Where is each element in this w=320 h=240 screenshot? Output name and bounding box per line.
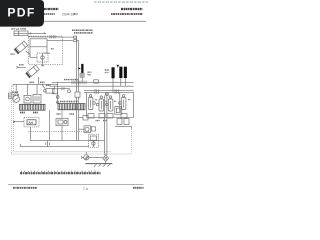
bus rail P <box>84 91 134 93</box>
connector under F3 <box>107 114 113 119</box>
wire R to dotted edge <box>115 127 131 129</box>
header horizontal rule <box>41 20 146 22</box>
battery bar B0 <box>81 64 83 73</box>
wire under B2 <box>120 78 122 86</box>
label 3x2 <box>40 81 45 83</box>
label battery group2 line1 <box>105 69 109 71</box>
terminal strip hatched S1 <box>20 104 46 110</box>
svg-text:PDF: PDF <box>7 5 35 19</box>
svg-text:AH: AH <box>28 121 33 125</box>
svg-text:2004-10: 2004-10 <box>62 12 75 16</box>
connector plug on W2 end <box>74 36 77 38</box>
arrow into AH <box>14 121 16 123</box>
text note AT MOTOR FORCE line2 <box>74 32 93 34</box>
label M5A1 B1 B2 above strip <box>60 101 78 103</box>
wire AH down <box>29 127 31 141</box>
svg-text:7-4: 7-4 <box>83 187 88 191</box>
wire W2 <box>28 36 74 38</box>
header left title line 1 <box>44 8 59 10</box>
relay box B2L <box>33 94 41 103</box>
key switch S2 <box>26 65 40 78</box>
ground hatches <box>94 164 97 166</box>
caption text bottom main <box>20 172 101 174</box>
gray box under B0 <box>80 73 84 77</box>
label battery group1 line1 <box>88 71 92 73</box>
machine boundary dotted outer <box>12 86 132 154</box>
label B01 <box>30 81 35 83</box>
connector under F2 <box>99 114 105 119</box>
label 9F1 <box>20 112 25 114</box>
connector hatch on W2 <box>49 35 51 38</box>
label B+ <box>96 120 100 122</box>
fuse label 3A <box>114 100 116 102</box>
connector J1 box <box>14 31 28 36</box>
vertical pair P2 left <box>104 96 106 155</box>
label 3A <box>51 48 54 50</box>
left margin connector <box>9 93 13 99</box>
wire under B3 <box>124 78 126 86</box>
diamond connector D1 <box>103 155 109 162</box>
junction circle center <box>105 93 108 96</box>
wire under B1 <box>112 78 114 92</box>
switch S1 label <box>11 53 15 55</box>
connector tick between rails <box>47 141 49 147</box>
footer right text <box>133 187 144 189</box>
WM dashed box <box>89 134 99 147</box>
label 41 <box>57 113 61 115</box>
text note AT MOTOR FORCE line1 <box>72 29 93 31</box>
bus rail M <box>52 81 134 83</box>
footer left text <box>13 187 37 189</box>
terminal box 34 <box>94 80 99 83</box>
relay K1 lead below <box>42 62 44 66</box>
bus rail O <box>84 90 134 92</box>
junction node X1 <box>57 82 59 104</box>
wire into S2 with fork <box>17 66 27 67</box>
relay K1 coil circle <box>41 56 44 59</box>
PDF badge <box>0 0 44 27</box>
relay area dashed enclosure <box>29 36 63 64</box>
fuse F3 <box>108 99 113 111</box>
bus rail left <box>13 83 58 85</box>
machine boundary dotted inner <box>13 88 111 152</box>
wire S2 down <box>38 77 40 84</box>
terminal strip hatched S2 <box>58 104 85 110</box>
label battery group2 line2 <box>105 72 109 74</box>
header right title line 2 <box>111 13 143 15</box>
AH dashed box <box>24 117 39 127</box>
motor pin up <box>85 152 87 155</box>
bottom rail 1 <box>30 140 104 142</box>
fuse F2 <box>99 99 104 111</box>
connector plug on W3 end <box>74 40 77 42</box>
bottom rail 2 <box>20 144 89 147</box>
header left title line 2 <box>44 13 55 15</box>
wire left edge down <box>30 47 37 58</box>
ground bus <box>86 163 113 165</box>
arrow at B0 <box>78 67 81 70</box>
component 4A box <box>56 118 68 125</box>
wire from R_A down <box>46 47 48 53</box>
connector ticks rails mid <box>94 89 96 93</box>
AH inner box <box>27 120 36 125</box>
relay K1 pin <box>42 53 44 62</box>
label W M A1 B1 B2 <box>64 79 79 81</box>
junction box JB <box>75 92 80 97</box>
header right title line 1 <box>121 8 143 10</box>
relay R terminals <box>117 119 122 125</box>
caption text bottom ascenders <box>21 170 100 172</box>
solenoid comp above WM <box>84 126 91 133</box>
label 8x3 <box>33 112 38 114</box>
vertical pair P1 left <box>75 97 77 140</box>
wire vertical V1b <box>77 41 79 92</box>
starter relay R cluster <box>115 107 122 115</box>
gauge label <box>12 91 19 93</box>
label battery group1 line2 <box>88 74 92 76</box>
connector ticks rails left <box>71 81 73 85</box>
label M <box>103 120 107 122</box>
connector under F4 <box>121 114 127 119</box>
dashed mid line <box>28 131 89 133</box>
wire W3 <box>47 40 73 42</box>
header faint url text line <box>94 1 148 3</box>
battery bar B3 <box>124 67 127 78</box>
bus rail N <box>50 85 134 87</box>
fuse label 13A <box>95 99 98 101</box>
fuse 14A box <box>46 89 54 94</box>
wire under B0 <box>81 77 83 82</box>
fuse label 2A <box>105 100 107 102</box>
relay box R_A <box>30 39 47 47</box>
label 14A <box>46 84 51 86</box>
vertical pair P1 right <box>78 97 80 140</box>
fuse label 5A <box>128 99 131 101</box>
battery bar B1 <box>112 67 115 78</box>
svg-text:IPT24.5HB: IPT24.5HB <box>11 27 26 31</box>
S2 wire label <box>19 64 24 66</box>
small box right of P1 <box>83 115 88 120</box>
connector under F1 <box>88 114 94 119</box>
ammeter gauge G1 <box>13 96 20 103</box>
wire drop x62 <box>61 110 63 118</box>
wire corner to vertical pair <box>75 37 77 92</box>
wire S1 to relay <box>26 52 30 58</box>
wire drop S1strip <box>49 110 51 140</box>
battery bar B2 <box>119 67 122 78</box>
cluster boxes mid <box>53 89 58 94</box>
fuse F1 <box>88 98 93 110</box>
label 04 <box>70 113 75 115</box>
wire motor to diamond <box>89 156 103 158</box>
footer rule <box>8 184 144 186</box>
motor M circle <box>84 155 89 160</box>
connector ticks rails right <box>114 89 116 93</box>
arrow above B2 <box>117 65 119 68</box>
sensor box B1L <box>24 95 31 103</box>
fuse F4 <box>121 98 126 110</box>
relay K1 dashed box <box>37 53 48 62</box>
page background <box>0 0 149 198</box>
fuse block outline <box>86 92 88 117</box>
key switch S1 <box>14 41 28 54</box>
wire W1 <box>28 32 46 34</box>
vertical pair P2 right <box>106 96 108 155</box>
